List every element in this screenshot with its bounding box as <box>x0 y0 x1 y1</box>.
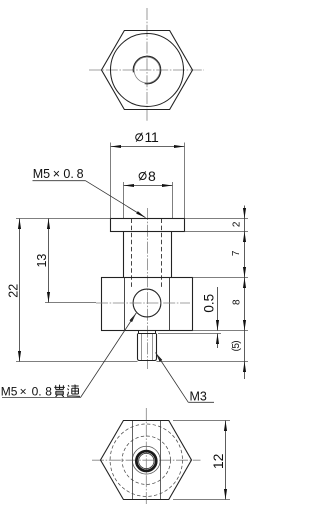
arrow 0.5 top <box>216 320 219 331</box>
extension line D11 left <box>110 143 112 219</box>
cross hole circle M5 through <box>133 289 161 317</box>
cross hole silhouette circle (bottom view) <box>132 446 160 474</box>
arrow 22 top <box>18 219 21 230</box>
leader arrowhead at stud <box>156 353 163 362</box>
dim line D11 <box>111 146 185 148</box>
dim line 13 <box>48 219 50 303</box>
hex body outline (front view) <box>102 278 193 331</box>
hexagon outline (top view) <box>102 31 193 110</box>
M3 stud inner thread circle (bottom view) <box>139 453 154 468</box>
neck left edge <box>123 232 125 278</box>
arrow 12 bottom <box>224 489 227 500</box>
M3 stud thread line right <box>152 334 154 360</box>
extension line bottom (22) <box>16 361 138 363</box>
thread relief groove <box>139 331 156 334</box>
tapped hole thread arc 3/4 (top view) <box>133 56 161 84</box>
leader arrowhead M5x0.8 <box>136 211 145 218</box>
arrow 2 bottom (outside) <box>243 232 246 243</box>
kanji TSU (through) <box>67 385 80 397</box>
dim line 12 <box>225 421 227 500</box>
extension line flange bottom right <box>185 231 249 233</box>
svg-text:22: 22 <box>6 284 20 298</box>
extension line stud bottom right <box>157 361 249 363</box>
centerline horizontal cross hole <box>96 302 190 304</box>
arrow 7 bottom <box>243 267 246 278</box>
label underline <box>33 180 86 182</box>
arrow 13 bottom <box>47 292 50 303</box>
centerline vertical (front view) <box>147 208 149 369</box>
svg-text:7: 7 <box>231 250 242 256</box>
label underline M5 through <box>2 397 81 399</box>
arrow 22 bottom <box>18 351 21 362</box>
dim text D8 <box>139 168 156 184</box>
arrow right D8 <box>162 184 173 187</box>
arrow left D8 <box>124 184 135 187</box>
dim line 0.5 <box>217 287 219 348</box>
centerline horizontal (bottom view) <box>92 459 201 461</box>
arrow 12 top <box>224 421 227 432</box>
svg-text:(5): (5) <box>231 341 242 352</box>
arrow 13 top <box>47 219 50 230</box>
hex corner line left <box>124 278 126 331</box>
svg-text:8: 8 <box>232 299 243 305</box>
flange circle D11 (top view) <box>111 34 184 107</box>
arrow 8 bottom <box>243 320 246 331</box>
svg-text:12: 12 <box>210 453 226 469</box>
hexagon outline (bottom view) <box>101 421 192 500</box>
svg-text:11: 11 <box>145 129 159 145</box>
extension line groove bottom <box>158 333 221 335</box>
extension line D8 left <box>123 182 125 218</box>
extension line flange top right <box>185 218 249 220</box>
centerline horizontal (top view) <box>89 69 204 71</box>
leader line M5x0.8 <box>86 181 146 218</box>
leader arrowhead at cross hole <box>130 313 137 322</box>
M3 stud thread line left <box>141 334 143 360</box>
extension line 12 bottom <box>173 499 230 501</box>
svg-text:0.5: 0.5 <box>201 294 216 313</box>
hidden flange circle D11 (bottom view) <box>110 424 182 496</box>
neck right edge <box>171 232 173 278</box>
dim line D8 <box>124 185 173 187</box>
leader line M3 <box>156 353 189 403</box>
centerline vertical (top view) <box>146 8 148 122</box>
kanji KAN (pierce) <box>54 385 65 397</box>
svg-text:13: 13 <box>35 254 49 268</box>
arrow left D11 <box>111 145 122 148</box>
extension line hole center (13) <box>45 302 96 304</box>
M3 stud outline <box>138 334 157 361</box>
cross hole line left (bottom view) <box>132 421 134 499</box>
arrow (5) bottom (outside) <box>243 362 246 373</box>
extension line hex top right <box>193 277 249 279</box>
arrow right D11 <box>174 145 185 148</box>
cross hole line right (bottom view) <box>160 421 162 499</box>
svg-text:8: 8 <box>148 168 156 184</box>
hidden neck circle D8 (bottom view) <box>122 436 170 484</box>
extension line hex bottom right <box>193 330 249 332</box>
arrow 0.5 bottom <box>216 334 219 345</box>
leader line M5 through <box>81 313 137 398</box>
label underline M3 <box>188 401 214 403</box>
hidden line tapped hole left <box>131 219 133 290</box>
svg-text:M5×0.8: M5×0.8 <box>33 167 84 181</box>
svg-text:M3: M3 <box>190 390 207 404</box>
dim text D11 <box>136 129 159 145</box>
dim line 22 <box>19 219 21 362</box>
hex corner line right <box>169 278 171 331</box>
extension line D8 right <box>172 182 174 218</box>
M3 stud end ring (bottom view) <box>136 451 156 471</box>
extension line D11 right <box>184 143 186 219</box>
svg-text:2: 2 <box>231 221 242 227</box>
extension line top face left <box>16 218 111 220</box>
tapped hole minor circle (top view) <box>134 57 160 83</box>
flange rectangle (front view) <box>111 219 185 232</box>
chain dim line right <box>244 206 246 380</box>
extension line 12 top <box>173 420 230 422</box>
arrow 8 top <box>243 278 246 289</box>
hidden line tapped hole right <box>161 219 163 290</box>
centerline vertical (bottom view) <box>145 408 147 504</box>
arrow 2 top (outside) <box>243 208 246 219</box>
svg-text:M5×0.8: M5×0.8 <box>1 385 52 399</box>
